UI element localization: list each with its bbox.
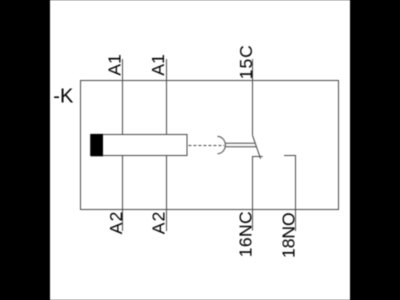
svg-text:A2: A2 (106, 212, 126, 235)
white drawing sheet (50, 0, 350, 300)
contact 16NC terminal (253, 157, 263, 231)
svg-text:15C: 15C (236, 45, 256, 79)
svg-text:-K: -K (53, 86, 74, 108)
mechanical link upper line (226, 142, 256, 144)
wire dashed actuating link (188, 145, 224, 147)
actuator semicircle (217, 136, 225, 153)
svg-text:16NC: 16NC (235, 211, 255, 257)
svg-text:18NO: 18NO (279, 212, 299, 258)
svg-text:A1: A1 (148, 54, 168, 75)
svg-text:A1: A1 (104, 54, 124, 75)
wire A1/A2 terminal line 2 (166, 59, 168, 231)
wire A1/A2 terminal line 1 (122, 59, 124, 231)
mechanical link lower line (226, 146, 257, 148)
contact blade (253, 135, 261, 159)
coil K body (91, 135, 188, 156)
contact 18NO terminal (284, 156, 296, 232)
coil K black block (91, 134, 103, 156)
wire 15C terminal line (252, 59, 254, 135)
svg-text:A2: A2 (148, 212, 168, 235)
relay outline box (81, 81, 339, 210)
